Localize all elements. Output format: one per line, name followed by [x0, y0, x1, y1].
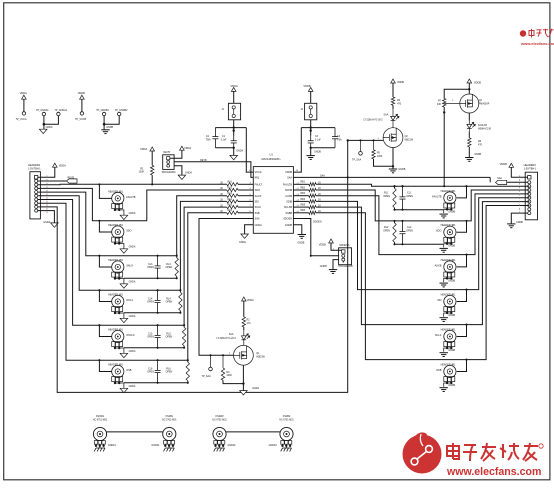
- svg-text:GNDB: GNDB: [448, 314, 455, 317]
- svg-text:MAX14830AMP+: MAX14830AMP+: [262, 158, 282, 161]
- svg-text:OSCLK: OSCLK: [126, 334, 135, 337]
- svg-text:GNDA: GNDA: [185, 172, 192, 175]
- svg-text:FAULT: FAULT: [255, 183, 263, 186]
- resistor RB2 20 ohm: [293, 189, 308, 191]
- wire net SAA (header1 pin9, bottom bus, to Q2 gate and U1): [38, 140, 348, 392]
- wire cap bus B: [301, 127, 335, 129]
- svg-text:SSBB: SSBB: [285, 212, 292, 215]
- wire net SCLK right (U1 to BNC to HEADER2): [316, 202, 529, 325]
- resistor RB1 20 ohm: [293, 183, 308, 185]
- svg-text:470: 470: [478, 143, 483, 146]
- resistor RB6 20 ohm: [293, 212, 308, 214]
- LED FAULTB HSMH-C190: [468, 113, 470, 121]
- ground GNDB at SDOENA: [342, 261, 344, 262]
- pin 3 HEADER2: [528, 185, 531, 188]
- svg-text:GNDA: GNDA: [43, 221, 50, 224]
- svg-text:GNDA: GNDA: [129, 280, 136, 283]
- svg-text:SAUX: SAUX: [255, 195, 262, 198]
- svg-text:VDDA: VDDA: [20, 91, 27, 95]
- ground GNDB at Q3: [468, 147, 470, 158]
- svg-text:0.1uF: 0.1uF: [221, 140, 227, 142]
- test point TP_SAA at Q2: [360, 140, 362, 151]
- svg-text:GNDF1: GNDF1: [151, 444, 160, 447]
- svg-text:www.elecfans.com: www.elecfans.com: [446, 466, 541, 478]
- svg-text:OPEN: OPEN: [406, 229, 413, 232]
- svg-text:VDDA: VDDA: [247, 299, 254, 302]
- svg-text:AUXB: AUXB: [285, 195, 292, 198]
- svg-text:GNDA: GNDA: [129, 315, 136, 318]
- watermark elecfans logo bottom right: [403, 432, 442, 473]
- svg-text:TP_GNDB2: TP_GNDB2: [115, 109, 128, 112]
- svg-text:GNDB: GNDB: [448, 210, 455, 213]
- pin 6 HEADER1: [35, 194, 38, 197]
- svg-text:SCLK: SCLK: [255, 206, 262, 209]
- wire ground return row 4: [124, 312, 180, 314]
- svg-text:VDDA: VDDA: [184, 147, 191, 150]
- svg-text:OSB: OSB: [126, 369, 132, 372]
- svg-text:PROGRAMB: PROGRAMB: [339, 265, 353, 268]
- svg-text:KS4W2: KS4W2: [215, 415, 224, 418]
- svg-text:GNDA: GNDA: [255, 224, 263, 227]
- svg-text:SAA: SAA: [287, 177, 292, 180]
- svg-text:OSC1: OSC1: [126, 299, 133, 302]
- svg-text:LT-2266-HYG-26-2: LT-2266-HYG-26-2: [363, 120, 383, 122]
- wire VDDA to HEADER1 pin1: [38, 167, 55, 177]
- svg-text:SDOENA: SDOENA: [339, 244, 350, 247]
- svg-text:SSA: SSA: [255, 218, 260, 221]
- svg-text:100K: 100K: [377, 155, 383, 158]
- svg-text:TP_VCCB: TP_VCCB: [75, 118, 86, 121]
- svg-text:GNDB: GNDB: [448, 384, 455, 387]
- svg-text:NC-0701-M31: NC-0701-M31: [93, 419, 108, 421]
- wire ground return row 5: [124, 347, 184, 349]
- svg-text:GNDA: GNDA: [239, 241, 246, 244]
- svg-text:OPEN: OPEN: [383, 229, 390, 232]
- svg-text:GNDA: GNDA: [236, 149, 243, 152]
- svg-text:OPEN: OPEN: [147, 336, 154, 339]
- node GNDB junction: [103, 123, 106, 126]
- wire REYB mid pin: [173, 161, 175, 163]
- svg-text:REYB: REYB: [164, 151, 171, 154]
- svg-text:OPEN: OPEN: [383, 195, 390, 198]
- wire ground return right row 1: [395, 209, 444, 211]
- transistor Q1 2N7002: [234, 345, 254, 365]
- wire Q1 gate from SSA trunk: [199, 219, 253, 356]
- wire ground return row 6: [124, 382, 188, 384]
- svg-text:OSB: OSB: [436, 369, 442, 372]
- svg-text:U1: U1: [270, 153, 274, 157]
- ground GNDB at HEADER2: [507, 224, 515, 228]
- pin 1 HEADER2 (square): [528, 176, 531, 179]
- svg-text:LT-2266-HYG-26-2: LT-2266-HYG-26-2: [216, 338, 236, 340]
- pin 6 HEADER2: [528, 196, 531, 199]
- wire VDDB down to U1: [293, 128, 301, 173]
- svg-text:SAUX: SAUX: [126, 264, 133, 267]
- svg-text:RB4: RB4: [301, 199, 306, 201]
- node GNDA junction: [43, 123, 46, 126]
- svg-text:HSMH-C190: HSMH-C190: [478, 128, 492, 130]
- svg-text:OPEN: OPEN: [166, 266, 173, 269]
- wire Q1 source to gnd: [242, 365, 244, 383]
- svg-text:GNDA: GNDA: [129, 212, 136, 215]
- svg-text:VDDA: VDDA: [59, 163, 66, 167]
- svg-text:GNDB: GNDB: [298, 242, 305, 245]
- wire ground return right row 2: [395, 243, 444, 245]
- svg-text:GNDA: GNDA: [129, 385, 136, 388]
- svg-text:SDI: SDI: [255, 201, 259, 204]
- svg-text:KS4B1: KS4B1: [166, 415, 174, 418]
- svg-text:470: 470: [247, 322, 252, 325]
- wire net FAULTB right (U1 to BNC to HEADER2): [316, 184, 529, 186]
- svg-text:SDO: SDO: [126, 229, 131, 232]
- svg-text:SSB: SSB: [255, 212, 260, 215]
- svg-text:VDDB: VDDB: [285, 171, 292, 174]
- svg-text:SDO: SDO: [436, 230, 441, 233]
- svg-text:RB6: RB6: [301, 210, 306, 212]
- svg-text:VDDB: VDDB: [500, 162, 507, 166]
- wire HEADER1 pin10 to ground: [38, 211, 55, 223]
- svg-text:OPEN: OPEN: [147, 301, 154, 304]
- node key line HEADER2 (dashed): [519, 176, 521, 216]
- pin 5 HEADER1: [35, 191, 38, 194]
- wire ground return row 3: [124, 277, 177, 279]
- pin 7 HEADER2: [528, 200, 531, 203]
- pin 9 HEADER2: [528, 208, 531, 211]
- svg-text:SAA: SAA: [229, 333, 234, 336]
- pin 10 HEADER1: [35, 209, 38, 212]
- wire Q2 source to gnd: [392, 148, 394, 170]
- pin 10 HEADER2: [528, 212, 531, 215]
- pin 8 HEADER2: [528, 204, 531, 207]
- svg-text:1-5V/TBH-1: 1-5V/TBH-1: [28, 168, 41, 171]
- pin 4 HEADER1: [35, 187, 38, 190]
- wire net SAA (U1 to HEADER2): [293, 176, 490, 178]
- wire net FAULTB to Q3 gate: [443, 107, 445, 186]
- svg-text:GNDF2: GNDF2: [227, 444, 236, 447]
- pin 9 HEADER1: [35, 205, 38, 208]
- svg-text:GNDA: GNDA: [129, 245, 136, 248]
- svg-text:TP_GNDA1: TP_GNDA1: [36, 109, 49, 112]
- wire net SDOEN (U1 to SDOENA jumper): [293, 219, 338, 256]
- svg-text:0.1uF: 0.1uF: [315, 140, 321, 142]
- svg-text:FAULTB: FAULTB: [432, 195, 442, 198]
- resistor R6 470: [468, 132, 470, 138]
- svg-text:SDI: SDI: [437, 299, 441, 302]
- svg-text:TP_VCCA: TP_VCCA: [16, 118, 27, 121]
- wire Q2 gate: [348, 139, 383, 141]
- svg-text:RB3: RB3: [301, 193, 306, 195]
- wire VDDB to HEADER2 pin1: [511, 167, 527, 177]
- svg-text:TP_GNDB1: TP_GNDB1: [96, 109, 109, 112]
- svg-text:OPEN: OPEN: [147, 266, 154, 269]
- ground GNDA at PROGRAMA: [174, 166, 182, 175]
- wire net FAULTB (header1 pin3 to U1, taps BNC and pullup): [38, 183, 227, 185]
- svg-text:OPEN: OPEN: [406, 195, 413, 198]
- wire net OSB (header1 to BNC6 to U1): [38, 203, 227, 360]
- wire jack pair 1: [107, 431, 163, 433]
- svg-text:OPEN: OPEN: [147, 371, 154, 374]
- wire net OSCLK (header1 to BNC5 to U1): [38, 200, 227, 326]
- svg-text:GNDB: GNDB: [314, 151, 321, 154]
- svg-text:GNDA: GNDA: [46, 126, 53, 129]
- svg-text:TP_GNDA2: TP_GNDA2: [54, 109, 67, 112]
- svg-text:OPEN: OPEN: [166, 301, 173, 304]
- svg-text:SDOEN: SDOEN: [283, 218, 292, 221]
- wire HEADER1 pin2 to REYB flag: [38, 180, 67, 182]
- ground GNDA at U1: [245, 225, 254, 234]
- svg-text:GNDB: GNDB: [106, 126, 113, 129]
- svg-text:NC-0701-M31: NC-0701-M31: [279, 419, 294, 421]
- svg-text:HEADER1: HEADER1: [28, 163, 41, 167]
- svg-text:KS4B2: KS4B2: [283, 415, 291, 418]
- wire cap gnd bus B: [311, 148, 335, 156]
- watermark registered mark: [539, 444, 543, 448]
- svg-text:SDOEN: SDOEN: [313, 221, 322, 224]
- svg-text:NC-0701-M31: NC-0701-M31: [162, 419, 177, 421]
- svg-text:66821W: 66821W: [256, 357, 265, 359]
- wire cap bus A: [215, 127, 246, 129]
- svg-text:SDOB: SDOB: [285, 189, 292, 192]
- svg-text:430: 430: [437, 103, 442, 106]
- svg-text:VDDA: VDDA: [231, 84, 238, 88]
- svg-text:GNDB: GNDB: [320, 265, 327, 268]
- svg-text:VDDA: VDDA: [140, 147, 147, 151]
- pin 4 HEADER2: [528, 188, 531, 191]
- svg-text:KS4W1: KS4W1: [96, 415, 105, 418]
- transistor Q2 2N7002: [383, 128, 403, 148]
- svg-text:GNDA: GNDA: [252, 387, 259, 390]
- svg-text:OPEN: OPEN: [166, 336, 173, 339]
- pin 1 HEADER1 (square): [34, 176, 37, 179]
- svg-text:GNDF1: GNDF1: [108, 444, 117, 447]
- wire HEADER2 pin10 to ground: [511, 213, 528, 224]
- svg-text:GNDB: GNDB: [448, 279, 455, 282]
- wire jack pair 2: [226, 431, 280, 433]
- svg-text:GNDF2: GNDF2: [269, 444, 278, 447]
- svg-text:470: 470: [397, 102, 402, 105]
- watermark small top right: [520, 29, 554, 38]
- svg-text:SCLK: SCLK: [435, 334, 442, 337]
- pin 3 HEADER1: [35, 183, 38, 186]
- svg-text:VDDB: VDDB: [397, 81, 404, 84]
- wire VCCA feed: [246, 128, 253, 173]
- wire Q3 bias: [444, 89, 469, 98]
- svg-text:VCCA: VCCA: [255, 171, 262, 174]
- resistor RB5 20 ohm: [293, 206, 308, 208]
- node key line HEADER1 (dashed): [46, 176, 48, 214]
- wire net OSB right (U1 to BNC to HEADER2): [316, 206, 529, 360]
- wire net SAUX (header1 to BNC3 to U1): [38, 192, 227, 256]
- watermark text 电子发烧友 (drawn strokes): [447, 443, 538, 461]
- svg-text:REYB: REYB: [200, 159, 207, 162]
- svg-text:FAULTB: FAULTB: [478, 124, 487, 127]
- ground GNDB at Q2: [389, 169, 397, 173]
- svg-text:IRQ: IRQ: [255, 177, 260, 180]
- svg-text:GNDB: GNDB: [474, 153, 481, 156]
- wire net SDO (header1 to BNC2 to U1): [38, 188, 227, 220]
- svg-text:TBA: TBA: [206, 139, 211, 142]
- wire net AUXB right (U1 to BNC to HEADER2): [316, 194, 529, 255]
- svg-text:SAA: SAA: [384, 114, 389, 117]
- resistor R3 100K at Q1: [222, 355, 224, 368]
- svg-text:GNDB: GNDB: [448, 349, 455, 352]
- test point TP_VCCB: [80, 112, 83, 115]
- svg-text:RB2: RB2: [301, 187, 306, 189]
- resistor R5 100K at Q2: [373, 140, 375, 149]
- svg-text:TP_SAA: TP_SAA: [352, 159, 362, 162]
- svg-text:FAULTB: FAULTB: [126, 196, 136, 199]
- test point TP_VCCA: [22, 112, 25, 115]
- svg-text:SCLKB: SCLKB: [284, 206, 293, 209]
- svg-text:GNDB: GNDB: [398, 168, 405, 171]
- svg-text:100K: 100K: [139, 171, 145, 174]
- pin 2 HEADER2: [528, 181, 531, 184]
- svg-text:HEADER2: HEADER2: [524, 163, 537, 167]
- svg-text:66821W: 66821W: [405, 140, 414, 142]
- svg-text:www.elecfans.com: www.elecfans.com: [520, 41, 554, 46]
- wire net REYB to U1 IRQ: [174, 162, 253, 178]
- wire net SDO right (U1 to BNC to HEADER2): [316, 190, 529, 221]
- wire net SDI right (U1 to BNC to HEADER2): [316, 198, 529, 290]
- pin 8 HEADER1: [35, 202, 38, 205]
- svg-text:GNDA: GNDA: [129, 350, 136, 353]
- svg-text:PROGRAMA: PROGRAMA: [162, 171, 176, 174]
- svg-text:GNDB: GNDB: [285, 224, 293, 227]
- svg-text:RB5: RB5: [301, 205, 306, 207]
- ground GNDB at U1: [293, 225, 301, 235]
- svg-text:VDDB: VDDB: [319, 244, 326, 247]
- svg-text:FAULTB: FAULTB: [283, 183, 293, 186]
- svg-text:VDDB: VDDB: [78, 91, 85, 95]
- svg-text:SDIB: SDIB: [286, 201, 292, 204]
- svg-text:RB1: RB1: [301, 182, 306, 184]
- svg-text:GNDB: GNDB: [448, 245, 455, 248]
- resistor RB3 20 ohm: [293, 195, 308, 197]
- wire J1 to cap node: [233, 120, 235, 136]
- wire cap gnd bus A: [215, 148, 233, 156]
- svg-text:VDDB: VDDB: [303, 84, 310, 88]
- svg-text:1-5V/TBH-1: 1-5V/TBH-1: [524, 167, 537, 170]
- pin 2 HEADER1: [35, 179, 38, 182]
- transistor Q3 PMV65XP: [460, 94, 479, 113]
- svg-text:PMV65XP: PMV65XP: [479, 104, 490, 106]
- ground GNDA at Q1: [240, 391, 248, 395]
- test point TP_SAA at Q1: [210, 355, 212, 367]
- resistor RB4 20 ohm: [293, 200, 308, 202]
- pin 7 HEADER1: [35, 198, 38, 201]
- wire J2 to cap node: [310, 120, 312, 136]
- svg-text:VDDB: VDDB: [474, 82, 481, 85]
- svg-text:GNDB: GNDB: [516, 221, 523, 224]
- svg-text:TP_SAA: TP_SAA: [202, 375, 212, 378]
- svg-text:SDO: SDO: [255, 189, 260, 192]
- svg-text:SAA: SAA: [497, 177, 502, 180]
- svg-text:NC-0701-M31: NC-0701-M31: [212, 419, 227, 421]
- wire net OSC1 (header1 to BNC4 to U1): [38, 196, 227, 290]
- svg-text:AUXB: AUXB: [435, 264, 442, 267]
- svg-text:OPEN: OPEN: [166, 371, 173, 374]
- pin 5 HEADER2: [528, 192, 531, 195]
- svg-text:SAA: SAA: [320, 175, 325, 178]
- svg-text:100K: 100K: [226, 374, 232, 377]
